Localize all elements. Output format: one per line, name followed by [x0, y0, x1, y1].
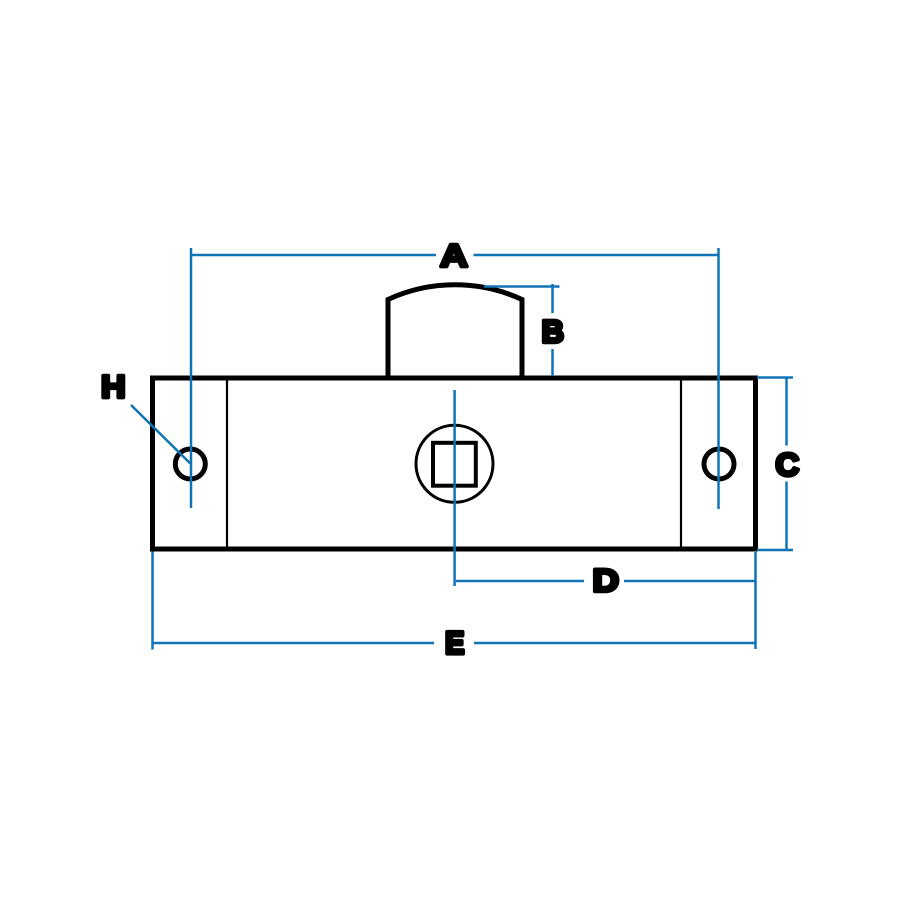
label C: [777, 453, 798, 475]
left mounting hole: [175, 449, 205, 479]
right mounting hole: [704, 449, 734, 479]
dimension B extension line: [484, 285, 560, 288]
dimension A right extension line: [717, 248, 720, 509]
dimension C bottom tick: [757, 549, 793, 552]
dimension A line: [191, 254, 719, 257]
square spindle hole: [433, 443, 476, 486]
label E: [447, 632, 463, 654]
main body outline: [153, 378, 756, 549]
center line through spindle (blue): [453, 390, 456, 586]
dimension C line: [785, 378, 788, 551]
label H: [103, 376, 123, 398]
dimension D/E shared right extension line: [754, 552, 757, 649]
left end-plate divider line: [226, 381, 228, 547]
dimension E left extension line: [151, 552, 154, 650]
right end-plate divider line: [680, 381, 682, 547]
cylinder dome on top of body: [388, 285, 522, 379]
dimension C top tick: [757, 376, 793, 379]
label B: [544, 321, 563, 343]
leader line from H to left hole: [131, 405, 190, 464]
dimension D line: [456, 580, 756, 583]
dimension E line: [153, 642, 756, 645]
spindle boss circle: [416, 425, 493, 502]
label D: [595, 570, 618, 592]
dimension B line: [551, 284, 554, 376]
dimension A left extension line: [190, 248, 193, 508]
label A: [441, 245, 467, 267]
